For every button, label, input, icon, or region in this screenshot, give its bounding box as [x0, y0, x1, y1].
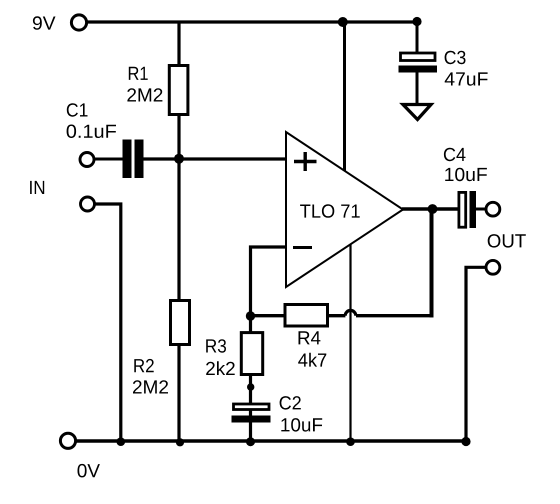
label R1 [129, 67, 148, 80]
label C4 value 10uF [445, 168, 487, 182]
wire R4 to inverting node [251, 314, 285, 317]
node junction: OUT jack wire to 0V rail [461, 437, 470, 446]
wire inverting input column (node B) [251, 247, 287, 316]
resistor R3 [241, 333, 262, 375]
label R1 value 2M2 [127, 88, 162, 101]
wire R3/C2 column to 0V rail [249, 316, 252, 441]
node junction: R2 column to 0V rail [176, 438, 184, 446]
terminal C1 input [80, 153, 94, 167]
wire C3 branch from rail [416, 22, 419, 53]
label 9V [33, 16, 56, 30]
label R3 value 2k2 [206, 361, 235, 375]
resistor R4 [285, 305, 328, 327]
wire OUT jack to 0V rail [466, 267, 486, 441]
node junction: output/C4/feedback [428, 204, 438, 214]
wire V- supply to 0V rail [349, 245, 351, 442]
terminal OUT jack [486, 260, 500, 274]
terminal output (after C4) [486, 202, 500, 216]
wire C4 to output terminal [476, 208, 487, 211]
wire 9V top rail [87, 20, 417, 23]
label C3 value 47uF [445, 72, 488, 85]
capacitor C1 [123, 140, 144, 179]
wire 0V bottom rail [76, 439, 466, 442]
node junction: rail to V+ [338, 17, 348, 27]
wire V+ supply to op-amp [343, 22, 346, 171]
capacitor C2 [232, 404, 271, 423]
label C1 value 0.1uF [67, 125, 116, 139]
wire C3 to ground [416, 72, 419, 105]
wire op-amp output [402, 207, 458, 210]
label C1 [67, 103, 88, 117]
capacitor C4 [459, 191, 476, 228]
resistor R2 [171, 301, 190, 345]
terminal IN [81, 197, 95, 211]
wire IN jack to 0V rail [95, 204, 121, 441]
label C2 value 10uF [281, 418, 322, 432]
node junction: C1/R1/R2 (node A) [174, 154, 184, 164]
wire R1/R2 column (9V rail to 0V rail) [177, 22, 180, 441]
label R4 value 4k7 [298, 353, 326, 367]
wire C1 to non-inverting input (node A) [143, 157, 286, 160]
node junction: V- to 0V rail [346, 437, 355, 446]
wire feedback from output down [430, 209, 434, 317]
node junction: IN wire to 0V rail [117, 437, 126, 446]
label OUT [488, 234, 526, 248]
terminal 9V [71, 15, 86, 30]
label R2 value 2M2 [133, 380, 168, 393]
wire hop over V- line [345, 310, 356, 315]
label op-amp TLO 71 [300, 204, 360, 218]
node junction: R3 to C2 [247, 383, 254, 390]
wire feedback horizontal right segment (with hop start) [356, 314, 434, 317]
label R4 [299, 331, 321, 344]
resistor R1 [169, 66, 188, 115]
wire feedback horizontal left segment to R4 [329, 314, 345, 317]
node junction: R4/R3/inverting input (node B) [246, 311, 255, 320]
label R2 [134, 359, 153, 372]
node junction: C2 to 0V rail [246, 437, 255, 446]
node junction: rail to C3 [412, 17, 421, 26]
label IN [30, 181, 44, 194]
ground [403, 105, 431, 120]
terminal 0V [60, 433, 75, 448]
label C3 [445, 51, 466, 64]
label R3 [206, 339, 226, 353]
op-amp minus input symbol [293, 246, 312, 249]
op-amp plus input symbol [294, 152, 317, 171]
capacitor C3 [399, 53, 438, 73]
label C4 [444, 148, 466, 162]
label C2 [280, 396, 301, 410]
label 0V [78, 464, 100, 478]
op-amp U1 TLO 71 triangle [286, 132, 403, 287]
wire C1 input (from IN terminal to C1) [94, 158, 123, 161]
